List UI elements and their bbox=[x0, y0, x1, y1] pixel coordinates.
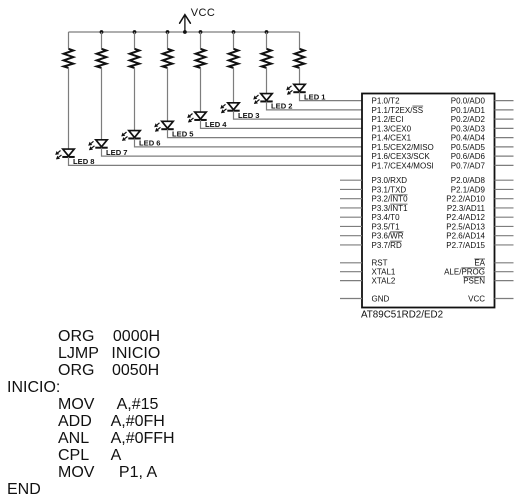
LED 8 emission arrows bbox=[55, 151, 61, 160]
pin stub P0.3/AD3 bbox=[495, 127, 514, 129]
pin stub P3.0/RXD bbox=[340, 179, 362, 181]
svg-text:P0.2/AD2: P0.2/AD2 bbox=[451, 115, 486, 124]
svg-text:ANL: ANL bbox=[58, 430, 89, 447]
svg-text:AT89C51RD2/ED2: AT89C51RD2/ED2 bbox=[361, 309, 443, 320]
svg-text:END: END bbox=[7, 481, 41, 498]
svg-text:P1.2/ECI: P1.2/ECI bbox=[372, 115, 404, 124]
LED 1 emission arrows bbox=[286, 86, 292, 95]
LED 4 (diode symbol) bbox=[194, 112, 206, 120]
svg-text:ALE/PROG: ALE/PROG bbox=[444, 268, 485, 277]
junction dot on VCC bus #3 bbox=[166, 30, 170, 34]
pin stub P3.1/TXD bbox=[340, 188, 362, 190]
svg-text:P3.0/RXD: P3.0/RXD bbox=[372, 176, 408, 185]
resistor R8 bbox=[64, 49, 74, 68]
wire LED 6 cathode to pin P1.5 bbox=[135, 138, 363, 146]
svg-text:P0.4/AD4: P0.4/AD4 bbox=[451, 134, 486, 143]
svg-text:P1.3/CEX0: P1.3/CEX0 bbox=[372, 124, 412, 133]
junction dot on VCC bus #5 bbox=[199, 30, 203, 34]
pin stub EA bbox=[495, 262, 514, 264]
svg-text:CPL: CPL bbox=[58, 447, 89, 464]
pin stub GND bbox=[340, 298, 362, 300]
pin stub P2.6/AD14 bbox=[495, 235, 514, 237]
wire VCC bus to resistor R5 bbox=[167, 32, 169, 49]
junction dot on VCC bus #1 bbox=[100, 30, 104, 34]
svg-text:P3.6/WR: P3.6/WR bbox=[372, 232, 404, 241]
svg-text:P2.3/AD11: P2.3/AD11 bbox=[447, 204, 486, 213]
svg-text:P0.6/AD6: P0.6/AD6 bbox=[451, 152, 486, 161]
LED 4 emission arrows bbox=[187, 114, 193, 123]
resistor R2 bbox=[262, 49, 272, 68]
LED 7 emission arrows bbox=[88, 141, 94, 150]
pin stub P2.1/AD9 bbox=[495, 188, 514, 190]
pin stub P2.3/AD11 bbox=[495, 207, 514, 209]
svg-text:GND: GND bbox=[372, 294, 390, 303]
wire LED 4 cathode to pin P1.3 bbox=[201, 120, 363, 128]
LED 1 (diode symbol) bbox=[293, 84, 305, 92]
svg-text:A,#15: A,#15 bbox=[117, 396, 159, 413]
resistor R5 bbox=[163, 49, 173, 68]
svg-text:P1.1/T2EX/SS: P1.1/T2EX/SS bbox=[372, 106, 424, 115]
svg-text:0000H: 0000H bbox=[113, 328, 160, 345]
LED 6 (diode symbol) bbox=[128, 131, 140, 139]
IC U1 AT89C51RD2/ED2 body bbox=[362, 94, 495, 308]
pin stub P2.7/AD15 bbox=[495, 244, 514, 246]
pin stub P0.5/AD5 bbox=[495, 146, 514, 148]
svg-text:ADD: ADD bbox=[58, 413, 92, 430]
svg-text:MOV: MOV bbox=[58, 464, 95, 481]
LED 2 (diode symbol) bbox=[260, 94, 272, 102]
wire VCC bus (horizontal rail) bbox=[69, 31, 300, 33]
svg-text:ORG: ORG bbox=[58, 328, 94, 345]
pin stub P3.6/WR bbox=[340, 235, 362, 237]
svg-text:MOV: MOV bbox=[58, 396, 95, 413]
wire VCC bus to resistor R1 bbox=[299, 32, 301, 49]
LED 5 emission arrows bbox=[154, 123, 160, 132]
svg-text:A: A bbox=[111, 447, 122, 464]
svg-text:P1.7/CEX4/MOSI: P1.7/CEX4/MOSI bbox=[372, 161, 434, 170]
svg-text:LJMP: LJMP bbox=[58, 345, 99, 362]
svg-text:P2.1/AD9: P2.1/AD9 bbox=[451, 185, 486, 194]
svg-text:P1, A: P1, A bbox=[119, 464, 158, 481]
pin stub XTAL2 bbox=[340, 280, 362, 282]
pin stub P0.4/AD4 bbox=[495, 137, 514, 139]
power symbol VCC (arrow) bbox=[180, 15, 191, 32]
svg-text:INICIO: INICIO bbox=[111, 345, 160, 362]
wire LED 1 cathode to pin P1.0 bbox=[300, 92, 363, 100]
wire VCC bus to resistor R7 bbox=[101, 32, 103, 49]
resistor R7 bbox=[97, 49, 107, 68]
pin stub P2.2/AD10 bbox=[495, 198, 514, 200]
svg-text:0050H: 0050H bbox=[112, 362, 159, 379]
wire VCC bus to resistor R2 bbox=[266, 32, 268, 49]
wire resistor R8 to LED 8 anode bbox=[68, 68, 70, 149]
svg-text:P3.2/INT0: P3.2/INT0 bbox=[372, 195, 409, 204]
assembly code listing bbox=[7, 328, 175, 498]
pin stub RST bbox=[340, 262, 362, 264]
svg-text:P3.7/RD: P3.7/RD bbox=[372, 241, 402, 250]
pin stub P3.2/INT0 bbox=[340, 198, 362, 200]
svg-text:P1.0/T2: P1.0/T2 bbox=[372, 97, 401, 106]
junction dot on VCC bus #2 bbox=[133, 30, 137, 34]
pin stub P2.5/AD13 bbox=[495, 225, 514, 227]
junction dot on VCC bus #7 bbox=[265, 30, 269, 34]
resistor R4 bbox=[196, 49, 206, 68]
wire VCC bus to resistor R3 bbox=[233, 32, 235, 49]
pin stub P2.4/AD12 bbox=[495, 216, 514, 218]
wire VCC bus to resistor R8 bbox=[68, 32, 70, 49]
wire LED 3 cathode to pin P1.2 bbox=[234, 111, 363, 119]
pin stub P0.0/AD0 bbox=[495, 100, 514, 102]
pin stub ALE/PROG bbox=[495, 271, 514, 273]
svg-text:A,#0FH: A,#0FH bbox=[111, 413, 165, 430]
svg-text:P2.0/AD8: P2.0/AD8 bbox=[451, 176, 486, 185]
resistor R3 bbox=[229, 49, 239, 68]
pin stub P3.5/T1 bbox=[340, 225, 362, 227]
LED 6 emission arrows bbox=[121, 132, 127, 141]
svg-text:P3.3/INT1: P3.3/INT1 bbox=[372, 204, 409, 213]
wire resistor R5 to LED 5 anode bbox=[167, 68, 169, 121]
wire resistor R6 to LED 6 anode bbox=[134, 68, 136, 131]
wire LED 5 cathode to pin P1.4 bbox=[168, 129, 363, 137]
junction dot on VCC bus #4 bbox=[183, 30, 187, 34]
wire resistor R2 to LED 2 anode bbox=[266, 68, 268, 94]
wire LED 8 cathode to pin P1.7 bbox=[69, 157, 363, 165]
svg-text:INICIO:: INICIO: bbox=[7, 379, 60, 396]
svg-text:XTAL2: XTAL2 bbox=[372, 277, 396, 286]
pin stub P3.4/T0 bbox=[340, 216, 362, 218]
resistor R1 bbox=[295, 49, 305, 68]
wire VCC bus to resistor R6 bbox=[134, 32, 136, 49]
svg-text:P0.5/AD5: P0.5/AD5 bbox=[451, 143, 486, 152]
svg-text:P3.1/TXD: P3.1/TXD bbox=[372, 185, 407, 194]
LED 8 (diode symbol) bbox=[62, 149, 74, 157]
wire resistor R3 to LED 3 anode bbox=[233, 68, 235, 103]
svg-text:P2.2/AD10: P2.2/AD10 bbox=[446, 195, 485, 204]
pin stub P3.3/INT1 bbox=[340, 207, 362, 209]
wire resistor R4 to LED 4 anode bbox=[200, 68, 202, 112]
pin stub VCC bbox=[495, 298, 514, 300]
wire resistor R1 to LED 1 anode bbox=[299, 68, 301, 84]
svg-text:P2.6/AD14: P2.6/AD14 bbox=[446, 232, 485, 241]
pin stub P3.7/RD bbox=[340, 244, 362, 246]
wire LED 7 cathode to pin P1.6 bbox=[102, 148, 363, 156]
svg-text:P2.7/AD15: P2.7/AD15 bbox=[446, 241, 485, 250]
svg-text:P3.4/T0: P3.4/T0 bbox=[372, 213, 401, 222]
pin stub P0.6/AD6 bbox=[495, 155, 514, 157]
junction dot on VCC bus #6 bbox=[232, 30, 236, 34]
LED 3 emission arrows bbox=[220, 104, 226, 113]
pin stub PSEN bbox=[495, 280, 514, 282]
svg-text:RST: RST bbox=[372, 259, 388, 268]
svg-text:A,#0FFH: A,#0FFH bbox=[111, 430, 175, 447]
svg-text:P1.5/CEX2/MISO: P1.5/CEX2/MISO bbox=[372, 143, 434, 152]
svg-text:EA: EA bbox=[474, 259, 485, 268]
svg-text:P1.4/CEX1: P1.4/CEX1 bbox=[372, 134, 412, 143]
svg-text:VCC: VCC bbox=[191, 7, 215, 19]
pin stub P2.0/AD8 bbox=[495, 179, 514, 181]
pin stub P0.2/AD2 bbox=[495, 118, 514, 120]
svg-text:P0.3/AD3: P0.3/AD3 bbox=[451, 124, 486, 133]
LED 3 (diode symbol) bbox=[227, 103, 239, 111]
LED 5 (diode symbol) bbox=[161, 121, 173, 129]
wire resistor R7 to LED 7 anode bbox=[101, 68, 103, 140]
svg-text:P2.4/AD12: P2.4/AD12 bbox=[446, 213, 485, 222]
wire LED 2 cathode to pin P1.1 bbox=[267, 101, 363, 109]
pin stub P0.7/AD7 bbox=[495, 164, 514, 166]
resistor R6 bbox=[130, 49, 140, 68]
svg-text:ORG: ORG bbox=[58, 362, 94, 379]
svg-text:P1.6/CEX3/SCK: P1.6/CEX3/SCK bbox=[372, 152, 431, 161]
LED 7 (diode symbol) bbox=[95, 140, 107, 148]
svg-text:P3.5/T1: P3.5/T1 bbox=[372, 222, 401, 231]
svg-text:P0.7/AD7: P0.7/AD7 bbox=[451, 161, 486, 170]
svg-text:P0.0/AD0: P0.0/AD0 bbox=[451, 97, 486, 106]
svg-text:P2.5/AD13: P2.5/AD13 bbox=[446, 222, 485, 231]
LED 2 emission arrows bbox=[253, 95, 259, 104]
pin stub XTAL1 bbox=[340, 271, 362, 273]
pin stub P0.1/AD1 bbox=[495, 109, 514, 111]
svg-text:VCC: VCC bbox=[468, 294, 485, 303]
svg-text:P0.1/AD1: P0.1/AD1 bbox=[451, 106, 486, 115]
svg-text:PSEN: PSEN bbox=[463, 277, 485, 286]
svg-text:XTAL1: XTAL1 bbox=[372, 268, 396, 277]
wire VCC bus to resistor R4 bbox=[200, 32, 202, 49]
